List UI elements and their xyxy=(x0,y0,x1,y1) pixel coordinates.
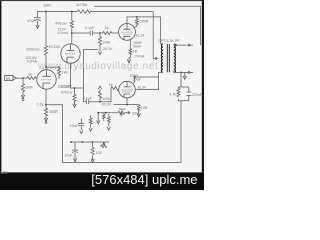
bias rail wire xyxy=(70,141,109,143)
resistor bias feed xyxy=(107,114,110,126)
capacitor 0.1uF top xyxy=(90,31,92,36)
svg-text:50uF: 50uF xyxy=(133,78,142,82)
output arrow bottom xyxy=(188,71,190,74)
ground below input load xyxy=(21,93,24,98)
tube V2 EL34 upper xyxy=(119,24,136,41)
capacitor 0.1uF bottom xyxy=(86,100,88,105)
junction dot lower cathode xyxy=(126,104,128,106)
svg-text:4.5mA: 4.5mA xyxy=(27,59,38,63)
svg-text:-20.3V: -20.3V xyxy=(100,102,111,106)
svg-text:130: 130 xyxy=(96,151,102,155)
resistor 1k grid stopper lower EL34 xyxy=(111,87,119,92)
svg-text:100k: 100k xyxy=(25,86,33,90)
border frame top edge xyxy=(0,0,204,1)
resistor 390R cathode xyxy=(44,108,47,116)
svg-text:220k/1w: 220k/1w xyxy=(26,48,40,52)
wire B+ rail xyxy=(46,11,153,13)
svg-text:4.5mA: 4.5mA xyxy=(58,31,69,35)
svg-text:ECC82: ECC82 xyxy=(49,45,61,49)
junction dot bias row xyxy=(97,112,99,114)
ground below 390R xyxy=(44,116,47,121)
junction dot secondary top xyxy=(175,44,177,46)
tube V3 EL34 lower xyxy=(119,81,136,98)
svg-text:-56V: -56V xyxy=(131,112,139,116)
junction dot input xyxy=(22,77,24,79)
wire primary top stub xyxy=(161,43,163,45)
wire lower anode to OPT xyxy=(135,72,158,89)
feedback network split bars xyxy=(179,87,189,101)
border frame right edge xyxy=(202,0,204,172)
wire secondary top output xyxy=(174,44,193,45)
output arrow top xyxy=(188,44,190,47)
svg-text:1k: 1k xyxy=(28,73,32,77)
ground below splitter cathode resistor xyxy=(73,102,76,107)
svg-text:10R: 10R xyxy=(141,106,148,110)
wire splitter cathode xyxy=(71,63,84,88)
potentiometer bias lower xyxy=(118,111,125,116)
tube V1b ECC82 phase splitter xyxy=(61,44,80,63)
svg-text:47k/1w: 47k/1w xyxy=(61,91,73,95)
wire upper cathode xyxy=(129,40,131,49)
resistor 1R upper cathode xyxy=(129,49,132,58)
ground secondary xyxy=(184,72,186,74)
svg-text:1k: 1k xyxy=(109,83,113,87)
resistor 4k7/5w xyxy=(78,10,91,13)
junction dot secondary bottom xyxy=(180,72,182,74)
wire bias route xyxy=(83,50,98,102)
resistor 1k0 xyxy=(58,67,61,79)
resistor 100k lower grid return xyxy=(98,90,101,102)
svg-text:EL34: EL34 xyxy=(136,33,144,37)
resistor 47k/1w splitter cathode xyxy=(73,88,76,102)
svg-text:4k7/5w: 4k7/5w xyxy=(76,3,88,7)
wire lower cathode xyxy=(114,98,139,105)
resistor 100k input load xyxy=(21,78,24,93)
resistor 220R screen upper xyxy=(134,17,138,28)
transformer OPT primary winding xyxy=(161,44,163,73)
svg-text:102.4V: 102.4V xyxy=(60,84,72,88)
resistor 10R lower cathode xyxy=(137,105,140,112)
svg-text:[576x484] uplc.me: [576x484] uplc.me xyxy=(91,172,197,187)
svg-text:47uF: 47uF xyxy=(27,19,36,23)
svg-text:4.7k: 4.7k xyxy=(169,93,176,97)
resistor 1k grid stopper upper EL34 xyxy=(103,32,119,35)
svg-text:MB: MB xyxy=(1,170,8,175)
potentiometer bias trim xyxy=(100,142,106,148)
junction dot cathode feedback node xyxy=(45,104,47,106)
capacitor 220nF feedback xyxy=(186,92,191,95)
transformer OPT secondary winding xyxy=(174,44,176,73)
border frame left edge xyxy=(0,0,1,172)
svg-text:1R: 1R xyxy=(133,50,138,54)
resistor 47k/1w splitter plate xyxy=(70,12,73,44)
wire stage1 anode to splitter grid xyxy=(46,66,59,68)
svg-text:50uF: 50uF xyxy=(133,45,142,49)
svg-text:0.1uF: 0.1uF xyxy=(83,97,93,101)
ground below 130 xyxy=(91,157,94,162)
svg-text:24mA: 24mA xyxy=(135,54,145,58)
wire lower screen xyxy=(133,77,159,83)
svg-text:0.1uF: 0.1uF xyxy=(85,26,95,30)
svg-text:47k/1w: 47k/1w xyxy=(55,21,67,25)
svg-text:100k: 100k xyxy=(102,41,110,45)
resistor 100k upper grid return xyxy=(98,33,101,50)
junction dot splitter cathode xyxy=(74,87,76,89)
svg-text:220nF: 220nF xyxy=(192,93,203,97)
resistor bias row xyxy=(103,113,106,121)
junction dot lower grid xyxy=(99,101,101,103)
svg-text:10uF: 10uF xyxy=(64,154,73,158)
capacitor 10uF bias upper xyxy=(78,119,84,129)
svg-text:1k: 1k xyxy=(105,26,109,30)
arrow below bias feed resistor xyxy=(107,125,110,130)
arrow below divider resistor xyxy=(89,126,92,131)
junction dot anode line xyxy=(136,16,138,18)
bias arrow lower xyxy=(98,86,101,91)
resistor 1k grid stopper stage1 xyxy=(27,77,37,80)
arrow below 10uF xyxy=(80,129,83,134)
wire upper anode to OPT xyxy=(127,17,161,44)
wire lower bias row xyxy=(98,112,127,114)
ground below 10R xyxy=(137,112,140,117)
resistor 130 bias xyxy=(91,142,94,157)
junction dot stage1 anode xyxy=(45,66,47,68)
svg-text:-20.3V: -20.3V xyxy=(102,47,113,51)
wire coupling top line xyxy=(72,32,103,34)
svg-text:10uF: 10uF xyxy=(70,124,79,128)
junction dot lower screen xyxy=(134,76,136,78)
junction dot upper grid xyxy=(99,32,101,34)
resistor 4.7k feedback xyxy=(177,88,180,96)
ground below 47uF xyxy=(36,23,39,28)
svg-text:EL34: EL34 xyxy=(138,86,146,90)
svg-text:OPT 4.3K PP: OPT 4.3K PP xyxy=(158,39,180,43)
wire to filter cap xyxy=(38,12,47,18)
ground below 10uF lower xyxy=(73,157,76,162)
resistor bias divider xyxy=(89,116,92,127)
junction dot B+ left xyxy=(45,11,47,13)
wire secondary bottom output xyxy=(174,71,193,73)
capacitor 47uF xyxy=(34,18,41,23)
capacitor 10uF bias lower xyxy=(72,142,78,157)
wire plate supply drop to OPT center tap xyxy=(153,12,157,60)
junction dot splitter anode xyxy=(71,32,73,34)
wire feedback to cathode xyxy=(46,105,63,163)
tube V1a ECC82 input triode xyxy=(37,70,56,89)
svg-text:220R: 220R xyxy=(140,19,149,23)
wire feedback drop xyxy=(63,72,182,162)
svg-text:IN: IN xyxy=(6,76,10,81)
wire stage1 cathode xyxy=(45,89,47,108)
svg-text:390R: 390R xyxy=(49,110,58,114)
svg-text:1.6v: 1.6v xyxy=(37,103,44,107)
svg-text:100k: 100k xyxy=(102,97,110,101)
svg-text:330V: 330V xyxy=(43,4,52,8)
wire primary bottom stub xyxy=(159,71,163,73)
ground below upper cathode xyxy=(127,58,130,63)
resistor 220k/1w stage1 plate load xyxy=(44,12,47,71)
bias arrow upper xyxy=(98,50,101,55)
arrow to -56V lower xyxy=(127,112,130,114)
wire input to grid xyxy=(17,77,27,79)
wire screen tap line xyxy=(94,6,200,45)
svg-text:www.diyaudiovillage.net: www.diyaudiovillage.net xyxy=(37,61,158,72)
bottom black bar xyxy=(0,172,204,190)
transformer core xyxy=(167,44,169,72)
input jack IN xyxy=(5,75,13,80)
ground left bias row xyxy=(97,113,99,119)
wire coupling bottom line xyxy=(83,88,111,102)
junction dots bias rail xyxy=(70,141,72,143)
junction dot B+ splitter feed xyxy=(71,11,73,13)
